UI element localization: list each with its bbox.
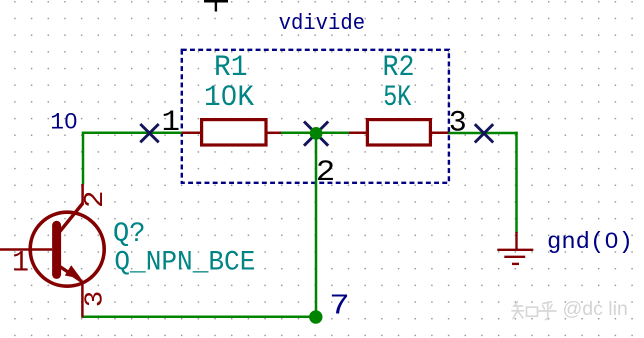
svg-text:2: 2 — [316, 156, 336, 190]
wire sheet pin 3 to gnd corner (horizontal) — [449, 132, 518, 135]
svg-text:vdivide: vdivide — [279, 11, 366, 36]
wire node 2 down to node 7 (vertical) — [315, 133, 318, 317]
R1 body — [202, 120, 266, 145]
junction dot node 7 — [309, 310, 322, 323]
junction dot node 2 — [310, 127, 323, 140]
Q emitter pin (3) lead — [81, 281, 84, 318]
svg-text:Q_NPN_BCE: Q_NPN_BCE — [114, 248, 255, 279]
zero dot patches — [68, 92, 615, 243]
wire node 10 down to Q collector (vertical) — [82, 132, 85, 185]
R2 pin 1 lead — [349, 132, 368, 135]
R1 pin 1 lead — [182, 132, 201, 135]
wire down to ground (vertical) — [515, 132, 518, 233]
Q emitter slant — [59, 266, 82, 282]
svg-text:3: 3 — [449, 107, 467, 141]
svg-text:7: 7 — [329, 290, 350, 323]
wire Q emitter to node 7 (horizontal) — [82, 316, 316, 319]
svg-text:10: 10 — [50, 110, 78, 136]
zhi — [515, 302, 518, 306]
wire R1 to node 2 to R2 (horizontal) — [280, 132, 349, 135]
Q body circle — [30, 212, 104, 286]
watermark 知乎 @dc lin — [512, 302, 556, 320]
R2 pin 2 lead — [431, 132, 449, 135]
wire node 10 to sheet pin 1 (horizontal) — [82, 132, 182, 135]
Q base bar — [52, 225, 61, 274]
transistor Q? (Q_NPN_BCE) — [0, 184, 255, 318]
X marker at sheet pin 1 — [140, 124, 158, 142]
ground symbol — [497, 232, 533, 264]
Q collector slant — [59, 203, 83, 233]
Q base pin (1) lead — [0, 248, 52, 251]
svg-text:Q?: Q? — [113, 219, 146, 250]
resistor R2 — [349, 51, 449, 145]
R1 pin 2 lead — [267, 132, 282, 135]
svg-text:1: 1 — [162, 106, 181, 140]
R2 body — [367, 120, 430, 145]
X marker at node 2 — [304, 122, 328, 146]
svg-text:@dc lin: @dc lin — [563, 298, 628, 320]
hierarchical sheet box "vdivide" (dashed) — [182, 50, 449, 183]
Q collector pin (2) lead — [81, 184, 84, 204]
svg-text:1: 1 — [12, 246, 29, 280]
X marker at sheet pin 3 — [475, 124, 493, 142]
svg-text:5K: 5K — [383, 81, 411, 115]
svg-text:gnd(0): gnd(0) — [547, 229, 633, 255]
Q emitter arrow — [65, 265, 81, 278]
svg-text:3: 3 — [80, 291, 110, 308]
power symbol (partially cut at top edge) — [204, 0, 228, 12]
svg-text:2: 2 — [81, 191, 111, 209]
hu — [543, 302, 552, 304]
resistor R1 — [182, 51, 281, 145]
